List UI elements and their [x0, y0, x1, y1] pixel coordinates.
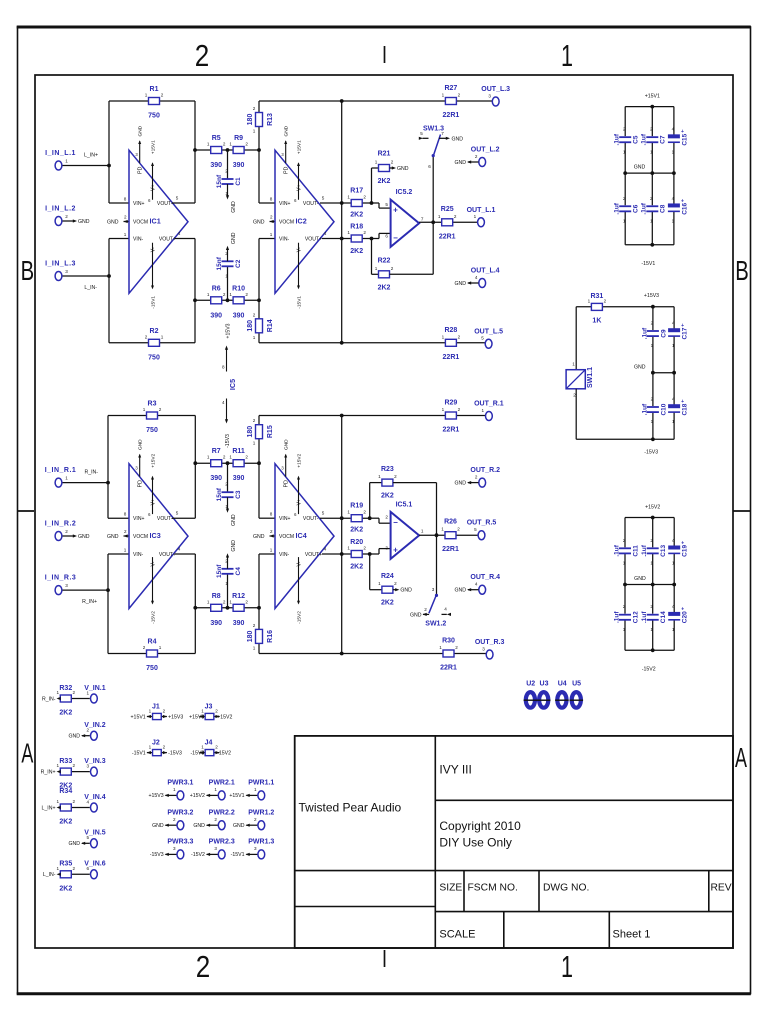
ground arrow: [467, 281, 471, 284]
svg-text:GND: GND: [454, 160, 466, 166]
svg-text:2: 2: [385, 514, 388, 519]
ground/net arrow: [81, 734, 85, 737]
svg-text:I_IN_R.2: I_IN_R.2: [45, 521, 77, 528]
zone tick right: [733, 510, 750, 512]
wire: [652, 518, 654, 548]
svg-text:2: 2: [215, 708, 218, 713]
svg-text:2: 2: [223, 599, 226, 604]
SW1.3 left contact pin 5: [419, 131, 429, 140]
svg-text:OUT_R.2: OUT_R.2: [470, 467, 500, 474]
svg-text:1: 1: [421, 528, 424, 533]
svg-text:4: 4: [672, 196, 675, 201]
svg-text:PWR3.2: PWR3.2: [167, 809, 193, 816]
wire: [259, 653, 486, 655]
R2 pins: [145, 334, 164, 339]
op-amp IC5.1: [391, 512, 420, 559]
R7 pins: [207, 455, 226, 460]
junction: [650, 171, 654, 175]
wire: [673, 412, 675, 439]
svg-text:1: 1: [229, 599, 232, 604]
svg-text:U5: U5: [572, 681, 581, 688]
svg-text:1: 1: [57, 866, 60, 871]
svg-text:2: 2: [363, 195, 366, 200]
resistor R2: [149, 339, 160, 346]
C17 pins: [672, 321, 675, 349]
zone tick left: [18, 510, 35, 512]
wire: [652, 307, 654, 330]
wire: [259, 202, 275, 204]
wire: [108, 239, 110, 343]
ground/net arrow: [73, 219, 77, 222]
svg-text:R5: R5: [212, 135, 221, 142]
svg-text:OUT_R.5: OUT_R.5: [467, 520, 497, 527]
wire: [378, 233, 380, 238]
wire: [341, 416, 343, 654]
resistor R32: [60, 695, 71, 702]
svg-text:J3: J3: [205, 704, 213, 711]
resistor R31: [591, 303, 602, 310]
svg-text:VIN-: VIN-: [133, 237, 143, 243]
R12 pins: [229, 599, 248, 604]
junction: [431, 220, 435, 224]
svg-text:.1uf: .1uf: [641, 327, 648, 339]
svg-text:1: 1: [588, 298, 591, 303]
svg-text:GND: GND: [138, 439, 144, 450]
svg-text:R3: R3: [148, 401, 157, 408]
svg-text:V-: V-: [151, 247, 157, 252]
svg-text:1: 1: [651, 419, 654, 424]
zone tick bottom: [384, 950, 386, 967]
svg-text:GND: GND: [634, 165, 646, 171]
mounting hole U2: [524, 692, 538, 708]
R18 pins: [347, 230, 366, 235]
svg-text:R10: R10: [232, 285, 245, 292]
R21 pins: [375, 160, 394, 165]
svg-text:5: 5: [322, 196, 325, 201]
svg-text:2: 2: [225, 482, 228, 487]
wire: [207, 794, 219, 796]
svg-text:1: 1: [672, 343, 675, 348]
svg-text:1: 1: [650, 149, 653, 154]
svg-text:3: 3: [65, 583, 68, 588]
svg-text:2: 2: [391, 266, 394, 271]
junction: [340, 201, 344, 205]
svg-text:OUT_L.3: OUT_L.3: [481, 86, 510, 93]
capacitor C12: [619, 615, 631, 620]
wire: [195, 299, 259, 301]
svg-text:3: 3: [214, 846, 217, 851]
svg-text:GND: GND: [454, 480, 466, 486]
svg-text:1: 1: [57, 763, 60, 768]
wire: [108, 415, 195, 417]
svg-text:22R1: 22R1: [443, 354, 460, 361]
wire: [468, 161, 479, 163]
svg-text:L_IN+: L_IN+: [84, 153, 98, 159]
svg-text:GND: GND: [152, 823, 164, 829]
svg-text:1: 1: [378, 581, 381, 586]
svg-text:GND: GND: [400, 588, 412, 594]
svg-text:2: 2: [270, 529, 273, 534]
ground arrow: [467, 160, 471, 163]
svg-text:2: 2: [223, 142, 226, 147]
svg-text:1: 1: [672, 149, 675, 154]
svg-text:2: 2: [245, 142, 248, 147]
svg-text:PD: PD: [284, 166, 290, 173]
svg-text:1: 1: [65, 476, 68, 481]
resistor R3: [147, 412, 158, 419]
svg-text:R9: R9: [234, 135, 243, 142]
svg-text:1: 1: [143, 407, 146, 412]
svg-text:1: 1: [375, 266, 378, 271]
svg-text:L_IN-: L_IN-: [84, 285, 97, 291]
svg-text:2: 2: [651, 397, 654, 402]
wire: [108, 101, 110, 203]
svg-text:PWR2.1: PWR2.1: [209, 780, 235, 787]
wire: [259, 415, 485, 417]
svg-text:390: 390: [233, 475, 245, 482]
junction: [672, 371, 676, 375]
svg-text:R23: R23: [381, 466, 394, 473]
svg-text:+15V3: +15V3: [148, 793, 163, 799]
resistor R13: [256, 113, 263, 127]
wire: [227, 184, 229, 196]
svg-text:R11: R11: [232, 448, 245, 455]
capacitor C6: [619, 206, 631, 211]
svg-text:15nf: 15nf: [216, 564, 223, 578]
resistor R7: [211, 460, 222, 467]
jumper J4: [199, 750, 219, 756]
junction: [226, 461, 230, 465]
svg-text:C17: C17: [682, 327, 689, 339]
svg-text:390: 390: [210, 162, 222, 169]
svg-text:390: 390: [233, 620, 245, 627]
svg-text:GND: GND: [78, 534, 90, 540]
wire: [651, 142, 653, 173]
J2 pins: [149, 744, 166, 749]
ground/net arrow: [392, 166, 396, 169]
svg-text:4: 4: [222, 400, 225, 405]
svg-text:15nf: 15nf: [216, 256, 223, 270]
wire: [259, 100, 492, 102]
svg-text:1: 1: [57, 690, 60, 695]
svg-text:.1uf: .1uf: [641, 202, 648, 214]
R10 pins: [229, 292, 248, 297]
svg-text:1: 1: [57, 799, 60, 804]
capacitor C4: [222, 569, 234, 574]
ground/net arrow: [206, 853, 210, 856]
wire: [624, 211, 626, 244]
svg-text:390: 390: [233, 162, 245, 169]
IC3 V+ pin with +15V2 arrow: [148, 453, 156, 517]
svg-text:2: 2: [145, 334, 148, 339]
svg-text:2: 2: [214, 817, 217, 822]
junction: [340, 341, 344, 345]
svg-text:R32: R32: [59, 685, 72, 692]
svg-text:2: 2: [623, 196, 626, 201]
R3 pins: [143, 407, 162, 412]
svg-text:+15V2: +15V2: [297, 453, 303, 467]
resistor R9: [233, 147, 244, 154]
svg-text:22R1: 22R1: [440, 665, 457, 672]
svg-text:1: 1: [253, 645, 256, 650]
svg-text:5: 5: [474, 527, 477, 532]
svg-text:SW1.1: SW1.1: [587, 367, 594, 388]
svg-text:1: 1: [623, 218, 626, 223]
connector OUT_L.3: [492, 97, 499, 106]
IC5.2 pin numbers: [385, 202, 424, 238]
op-amp IC3: [129, 464, 188, 609]
IC4 V- pin with -15V2 arrow: [297, 557, 303, 624]
IC5.1 pin numbers: [385, 514, 424, 550]
junction: [340, 516, 344, 520]
wire: [227, 557, 229, 569]
wire: [673, 211, 675, 244]
wire: [390, 273, 434, 275]
svg-text:1: 1: [561, 39, 573, 73]
svg-text:1: 1: [207, 599, 210, 604]
svg-text:Twisted Pear Audio: Twisted Pear Audio: [299, 801, 402, 815]
svg-text:2: 2: [650, 196, 653, 201]
ground/net arrow: [270, 220, 274, 223]
ground arrow: [226, 246, 229, 250]
svg-text:.1uf: .1uf: [641, 403, 648, 415]
svg-text:1: 1: [201, 744, 204, 749]
svg-text:5: 5: [176, 196, 179, 201]
capacitor C18: [668, 399, 684, 412]
svg-text:B: B: [735, 255, 749, 286]
ground arrow: [226, 195, 229, 199]
wire: [227, 266, 229, 300]
svg-text:VOCM: VOCM: [133, 220, 148, 226]
svg-text:2: 2: [254, 817, 257, 822]
svg-text:-15V3: -15V3: [150, 852, 164, 858]
svg-text:750: 750: [146, 665, 158, 672]
wire: [82, 842, 90, 844]
svg-text:R13: R13: [267, 113, 274, 126]
R19 pins: [347, 510, 366, 515]
wire: [82, 735, 90, 737]
svg-text:8: 8: [270, 512, 273, 517]
svg-text:PWR1.3: PWR1.3: [248, 839, 274, 846]
svg-text:GND: GND: [231, 514, 237, 526]
wire: [624, 173, 626, 205]
wire: [436, 535, 438, 594]
IC3 pin numbers: [124, 511, 181, 553]
svg-text:I_IN_R.1: I_IN_R.1: [45, 467, 77, 474]
junction: [107, 274, 111, 278]
R8 pins: [207, 599, 226, 604]
svg-text:OUT_L.2: OUT_L.2: [471, 147, 500, 154]
capacitor C11: [619, 548, 631, 553]
wire: [109, 238, 129, 240]
svg-text:VIN-: VIN-: [133, 552, 143, 558]
ground arrow: [467, 588, 471, 591]
svg-text:5: 5: [176, 511, 179, 516]
capacitor C5: [619, 137, 631, 142]
svg-text:IC5: IC5: [228, 379, 237, 390]
wire: [62, 220, 73, 222]
resistor R14: [256, 319, 263, 333]
junction: [226, 148, 230, 152]
connector V_IN.3: [91, 767, 98, 776]
resistor R15: [256, 425, 263, 439]
capacitor C7: [646, 137, 658, 142]
svg-text:R21: R21: [378, 151, 391, 158]
wire: [673, 336, 675, 373]
svg-text:.1uf: .1uf: [641, 611, 648, 623]
svg-text:VOCM: VOCM: [279, 534, 294, 540]
svg-text:C13: C13: [660, 545, 667, 557]
capacitor C13: [647, 548, 659, 553]
svg-text:-15V3: -15V3: [225, 434, 231, 448]
IC2 PD pin with GND arrow: [281, 125, 289, 173]
svg-text:4: 4: [87, 799, 90, 804]
svg-text:FSCM NO.: FSCM NO.: [468, 883, 518, 894]
wire: [246, 824, 258, 826]
R15 pins: [253, 418, 256, 446]
svg-text:V+: V+: [297, 499, 303, 506]
svg-text:+: +: [393, 206, 398, 215]
junction: [435, 533, 439, 537]
svg-text:Copyright 2010: Copyright 2010: [439, 819, 521, 833]
svg-text:VOUT-: VOUT-: [157, 201, 173, 207]
wire: [652, 585, 654, 614]
svg-text:R_IN-: R_IN-: [42, 696, 56, 702]
svg-text:.1uf: .1uf: [614, 202, 621, 214]
svg-text:R27: R27: [444, 85, 457, 92]
R9 pins: [229, 142, 248, 147]
wire: [227, 574, 229, 608]
connector I_IN_L.1: [55, 161, 62, 170]
wire: [436, 483, 438, 536]
svg-text:1: 1: [201, 708, 204, 713]
wire: [371, 239, 373, 275]
svg-text:1: 1: [149, 708, 152, 713]
svg-text:PWR3.3: PWR3.3: [167, 839, 193, 846]
ground/net arrow: [57, 873, 61, 876]
wire: [71, 873, 90, 875]
connector I_IN_L.2: [55, 217, 62, 226]
svg-text:I_IN_R.3: I_IN_R.3: [45, 575, 77, 582]
svg-text:I_IN_L.2: I_IN_L.2: [45, 206, 76, 213]
wire: [624, 620, 626, 651]
svg-text:2: 2: [650, 127, 653, 132]
resistor R28: [445, 339, 456, 346]
svg-text:R28: R28: [444, 327, 457, 334]
svg-text:1: 1: [650, 218, 653, 223]
svg-text:OUT_L.4: OUT_L.4: [471, 268, 500, 275]
connector OUT_L.1: [478, 218, 485, 227]
wire: [258, 239, 260, 343]
svg-text:-15V1: -15V1: [151, 296, 157, 309]
svg-text:−: −: [393, 233, 398, 242]
svg-text:2: 2: [223, 455, 226, 460]
svg-text:+15V1: +15V1: [151, 140, 157, 154]
junction: [651, 516, 655, 520]
IC4 pin numbers: [270, 511, 327, 553]
svg-text:2: 2: [163, 744, 166, 749]
svg-text:1: 1: [441, 527, 444, 532]
wire: [259, 342, 485, 344]
ground/net arrow: [124, 534, 128, 537]
C15 pins: [672, 127, 675, 155]
svg-text:.1uf: .1uf: [613, 544, 620, 556]
svg-text:C18: C18: [682, 403, 689, 415]
svg-text:2: 2: [253, 312, 256, 317]
svg-text:C3: C3: [235, 490, 242, 499]
IC3 V- pin with -15V2 arrow: [151, 557, 157, 624]
svg-text:R6: R6: [212, 285, 221, 292]
capacitor C9: [647, 331, 659, 336]
svg-text:C2: C2: [235, 259, 242, 268]
svg-text:C5: C5: [633, 135, 640, 144]
IC2 V+ pin with +15V1 arrow: [294, 140, 302, 203]
svg-text:R26: R26: [444, 519, 457, 526]
svg-text:1: 1: [672, 419, 675, 424]
svg-text:2: 2: [455, 645, 458, 650]
wire: [372, 202, 380, 204]
svg-text:C6: C6: [633, 204, 640, 213]
wire: [258, 101, 260, 203]
svg-text:B: B: [21, 255, 35, 286]
R27 pins: [442, 93, 461, 98]
svg-text:+15V3: +15V3: [644, 293, 659, 299]
wire: [372, 167, 379, 169]
svg-text:IVY III: IVY III: [439, 763, 471, 777]
wire: [432, 222, 434, 274]
svg-text:4: 4: [178, 547, 181, 552]
IC1 pin numbers: [124, 196, 181, 238]
IC1 V+ pin with +15V1 arrow: [148, 140, 156, 203]
resistor R22: [379, 271, 390, 278]
svg-text:+15V3: +15V3: [168, 714, 183, 720]
wire: [673, 518, 675, 548]
IC4 PD pin with GND arrow: [281, 439, 289, 487]
svg-text:1: 1: [87, 690, 90, 695]
IC3 PD pin with GND arrow: [135, 439, 143, 487]
svg-text:2: 2: [475, 474, 478, 479]
svg-text:VOUT-: VOUT-: [157, 516, 173, 522]
svg-text:3: 3: [482, 646, 485, 651]
wire: [71, 771, 90, 773]
svg-text:2: 2: [475, 154, 478, 159]
wire: [258, 554, 260, 654]
junction: [651, 648, 655, 652]
junction: [370, 201, 374, 205]
svg-text:2K2: 2K2: [381, 600, 394, 607]
capacitor C16: [668, 198, 684, 211]
R25 pins: [438, 214, 457, 219]
junction: [623, 583, 627, 587]
wire: [372, 273, 379, 275]
C6 pins: [623, 196, 626, 224]
svg-text:+15V1: +15V1: [297, 140, 303, 154]
svg-text:I_IN_L.1: I_IN_L.1: [45, 150, 76, 157]
svg-text:2K2: 2K2: [350, 527, 363, 534]
svg-text:J4: J4: [205, 740, 213, 747]
ground/net arrow: [124, 220, 128, 223]
wire: [369, 483, 371, 519]
R4 pins: [143, 645, 162, 650]
svg-text:IC5.2: IC5.2: [396, 189, 413, 196]
svg-text:2: 2: [363, 546, 366, 551]
junction: [651, 305, 655, 309]
wire: [124, 221, 130, 223]
IC5 V+ pin with +15V3 arrow: [222, 346, 228, 372]
wire: [194, 239, 196, 343]
svg-text:L_IN+: L_IN+: [42, 805, 56, 811]
junction: [623, 171, 627, 175]
